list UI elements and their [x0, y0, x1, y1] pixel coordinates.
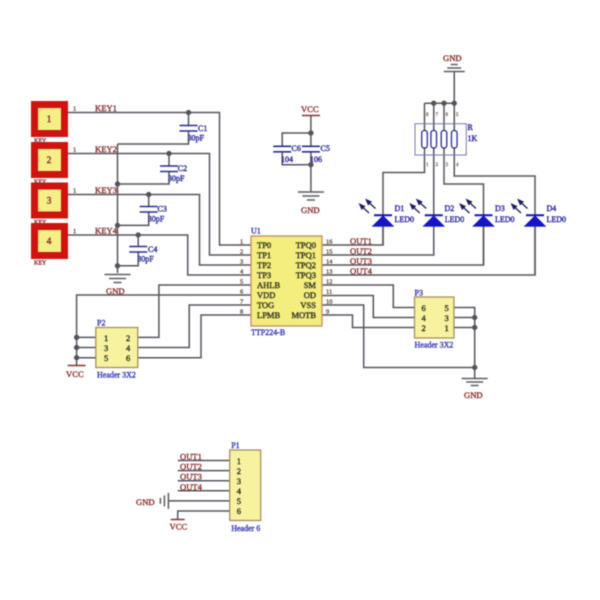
svg-text:LED0: LED0 [395, 215, 415, 224]
svg-text:1: 1 [73, 106, 76, 113]
svg-text:TPQ1: TPQ1 [296, 250, 316, 260]
svg-text:Header 3X2: Header 3X2 [415, 341, 454, 350]
svg-text:OUT2: OUT2 [350, 246, 372, 256]
svg-text:14: 14 [326, 259, 333, 266]
svg-text:OUT4: OUT4 [180, 482, 203, 492]
svg-text:KEY3: KEY3 [95, 185, 117, 195]
svg-text:C1: C1 [198, 124, 207, 133]
svg-text:1K: 1K [468, 134, 478, 143]
svg-text:3: 3 [47, 197, 52, 207]
svg-text:P2: P2 [97, 319, 105, 328]
svg-text:LPMB: LPMB [257, 310, 280, 320]
svg-text:VCC: VCC [170, 522, 188, 532]
svg-text:6: 6 [237, 506, 241, 516]
svg-text:TOG: TOG [257, 300, 274, 310]
svg-text:6: 6 [446, 113, 449, 118]
svg-text:GND: GND [136, 497, 155, 507]
svg-text:9: 9 [326, 309, 329, 316]
svg-text:2: 2 [240, 249, 243, 256]
svg-text:7: 7 [436, 113, 439, 118]
svg-text:TP2: TP2 [257, 260, 271, 270]
svg-text:GND: GND [443, 53, 462, 63]
svg-text:5: 5 [445, 303, 449, 313]
svg-text:2: 2 [126, 333, 130, 343]
svg-text:D4: D4 [547, 204, 557, 213]
svg-text:3: 3 [445, 313, 449, 323]
svg-text:8: 8 [426, 113, 429, 118]
svg-text:C6: C6 [292, 144, 301, 153]
svg-text:5: 5 [456, 113, 459, 118]
svg-text:1: 1 [240, 239, 243, 246]
svg-text:KEY: KEY [34, 261, 47, 267]
svg-text:3: 3 [446, 163, 449, 168]
svg-text:OUT1: OUT1 [350, 236, 372, 246]
svg-text:30pF: 30pF [148, 215, 165, 224]
svg-text:MOTB: MOTB [291, 310, 316, 320]
svg-text:30pF: 30pF [188, 134, 205, 143]
svg-text:P3: P3 [415, 289, 423, 298]
svg-text:VSS: VSS [300, 300, 316, 310]
svg-text:VCC: VCC [301, 104, 319, 114]
svg-text:KEY: KEY [34, 139, 47, 145]
svg-text:16: 16 [326, 239, 333, 246]
svg-text:Header 6: Header 6 [231, 524, 260, 533]
svg-text:12: 12 [326, 279, 333, 286]
svg-text:AHLB: AHLB [257, 280, 280, 290]
svg-text:4: 4 [237, 486, 242, 496]
svg-text:1: 1 [426, 163, 429, 168]
svg-text:OUT4: OUT4 [350, 266, 373, 276]
svg-text:104: 104 [281, 155, 293, 164]
svg-text:C5: C5 [321, 144, 330, 153]
svg-text:OUT3: OUT3 [350, 256, 372, 266]
svg-text:KEY: KEY [34, 220, 47, 226]
svg-text:TPQ0: TPQ0 [296, 240, 316, 250]
svg-text:SM: SM [304, 280, 317, 290]
svg-text:1: 1 [73, 147, 76, 154]
svg-text:D1: D1 [395, 204, 405, 213]
svg-text:30pF: 30pF [168, 174, 185, 183]
svg-text:TP0: TP0 [257, 240, 271, 250]
svg-text:4: 4 [47, 237, 52, 247]
svg-text:5: 5 [240, 279, 243, 286]
svg-text:LED0: LED0 [547, 215, 567, 224]
svg-text:LED0: LED0 [445, 215, 465, 224]
svg-text:1: 1 [73, 188, 76, 195]
svg-text:D2: D2 [445, 204, 455, 213]
svg-text:13: 13 [326, 269, 333, 276]
svg-text:C2: C2 [178, 164, 187, 173]
svg-text:VDD: VDD [257, 290, 275, 300]
svg-text:TP1: TP1 [257, 250, 271, 260]
svg-text:GND: GND [464, 390, 483, 400]
svg-text:6: 6 [126, 353, 130, 363]
svg-text:GND: GND [106, 286, 125, 296]
svg-text:1: 1 [47, 115, 52, 125]
svg-text:R: R [468, 123, 474, 132]
svg-text:10: 10 [326, 299, 333, 306]
svg-text:15: 15 [326, 249, 333, 256]
svg-text:Header 3X2: Header 3X2 [97, 371, 136, 380]
svg-text:30pF: 30pF [137, 255, 154, 264]
svg-text:3: 3 [104, 343, 108, 353]
svg-text:3: 3 [240, 259, 243, 266]
svg-text:8: 8 [240, 309, 243, 316]
svg-text:VCC: VCC [66, 369, 84, 379]
svg-text:LED0: LED0 [495, 215, 515, 224]
svg-text:TPQ3: TPQ3 [296, 270, 316, 280]
svg-text:P1: P1 [231, 441, 239, 450]
svg-text:D3: D3 [495, 204, 505, 213]
svg-text:4: 4 [456, 163, 459, 168]
svg-text:OUT3: OUT3 [180, 472, 202, 482]
svg-text:1: 1 [237, 456, 241, 466]
svg-text:11: 11 [326, 289, 332, 296]
svg-text:1: 1 [445, 323, 449, 333]
svg-text:U1: U1 [251, 227, 261, 236]
svg-text:OD: OD [304, 290, 316, 300]
svg-text:C3: C3 [158, 205, 167, 214]
svg-text:1: 1 [73, 228, 76, 235]
svg-text:TTP224-B: TTP224-B [251, 328, 285, 337]
svg-text:GND: GND [301, 205, 320, 215]
svg-text:OUT2: OUT2 [180, 462, 202, 472]
svg-text:2: 2 [47, 156, 52, 166]
svg-text:TPQ2: TPQ2 [296, 260, 316, 270]
svg-text:2: 2 [237, 466, 241, 476]
svg-text:C4: C4 [148, 245, 157, 254]
svg-text:106: 106 [310, 155, 322, 164]
svg-text:TP3: TP3 [257, 270, 271, 280]
svg-text:KEY4: KEY4 [95, 226, 118, 236]
svg-text:5: 5 [104, 353, 108, 363]
svg-text:KEY1: KEY1 [95, 103, 117, 113]
svg-text:3: 3 [237, 476, 241, 486]
svg-text:KEY: KEY [34, 180, 47, 186]
svg-text:OUT1: OUT1 [180, 452, 202, 462]
svg-text:2: 2 [422, 323, 426, 333]
svg-text:2: 2 [436, 163, 439, 168]
svg-text:6: 6 [422, 303, 426, 313]
svg-text:KEY2: KEY2 [95, 144, 117, 154]
svg-text:5: 5 [237, 496, 241, 506]
svg-text:1: 1 [104, 333, 108, 343]
